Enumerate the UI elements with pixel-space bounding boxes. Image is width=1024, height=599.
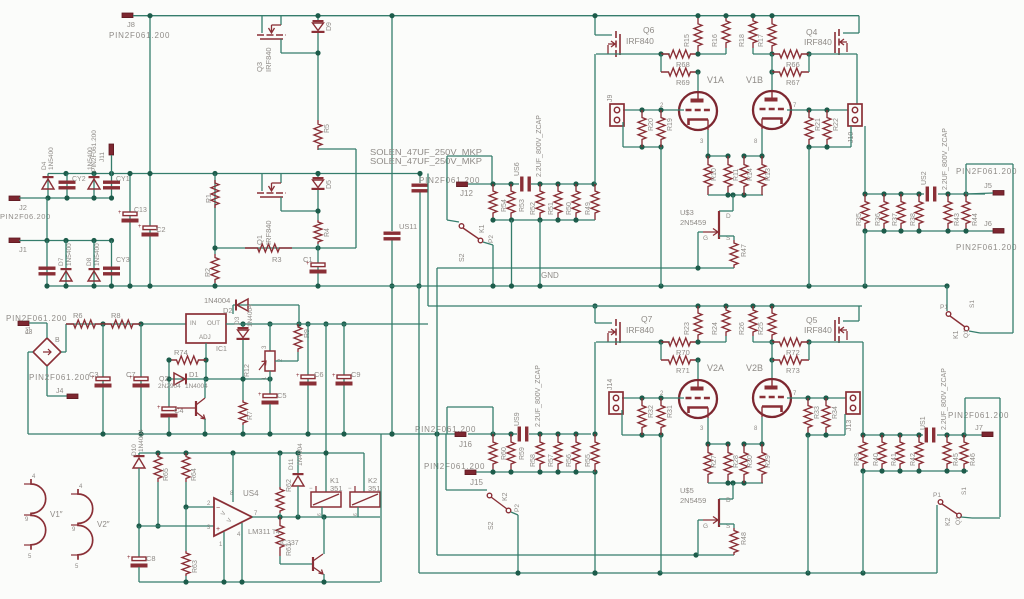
transistor Q3 IRF840 [261, 16, 263, 33]
svg-text:R74: R74 [174, 348, 188, 357]
svg-text:R40: R40 [873, 453, 880, 466]
svg-text:IRF840: IRF840 [804, 37, 832, 47]
switch K2 right [936, 505, 938, 573]
wire V2B plate [771, 360, 773, 380]
svg-text:R29: R29 [765, 455, 772, 468]
wire cathode rail y483 [708, 482, 763, 484]
svg-text:R57: R57 [548, 454, 555, 467]
svg-text:351: 351 [368, 484, 381, 493]
svg-text:G: G [703, 523, 708, 530]
svg-text:R19: R19 [667, 118, 674, 131]
svg-text:US2: US2 [921, 171, 928, 185]
transistor Q6 IRF840 [595, 34, 612, 36]
wire minus input [186, 506, 214, 508]
wire PSU rail y434 [28, 433, 455, 435]
resistor R37 [897, 194, 905, 231]
connector J2 [9, 196, 20, 201]
JFET U$3 2N5459 [732, 195, 734, 211]
svg-text:R63: R63 [192, 560, 199, 573]
svg-text:V1B: V1B [746, 75, 763, 85]
svg-text:6: 6 [353, 513, 359, 516]
svg-text:CY3: CY3 [116, 257, 130, 264]
connector J10 [848, 104, 862, 126]
diode D4 [47, 174, 49, 199]
wire B1 left down [28, 351, 33, 353]
resistor R42 [915, 435, 923, 471]
switch K2 lever [491, 497, 507, 509]
svg-text:P1: P1 [933, 492, 941, 499]
svg-text:K2: K2 [502, 492, 509, 501]
resistor R4 [314, 220, 322, 244]
svg-text:R31: R31 [667, 405, 674, 418]
connector J1 [9, 238, 20, 243]
diode D10 [138, 453, 140, 456]
wire relay supply K1 [325, 324, 327, 492]
connector J12 [457, 182, 468, 187]
resistor R66 [772, 50, 809, 58]
wire K2 coil bottom [357, 507, 359, 517]
resistor R6 [66, 320, 103, 328]
resistor R45 [943, 435, 951, 471]
wire x437 upper [436, 268, 438, 306]
resistor R17 [768, 16, 776, 54]
capacitor US1 [925, 428, 928, 443]
tube V1A [679, 92, 717, 130]
resistor R9 [294, 324, 302, 352]
svg-text:+: + [296, 373, 300, 379]
svg-text:1N5400: 1N5400 [94, 243, 101, 266]
switch K1 right [946, 286, 948, 311]
resistor R15 [694, 16, 702, 54]
svg-text:R38: R38 [910, 213, 917, 226]
svg-text:D: D [726, 213, 731, 220]
capacitor CY2 [66, 174, 68, 199]
resistor R11 [724, 156, 732, 195]
wire K2 drop [511, 512, 518, 515]
svg-text:R3: R3 [272, 255, 282, 264]
svg-text:S1: S1 [961, 487, 968, 495]
wire J9 down [622, 122, 624, 147]
wire Q5 gate [809, 341, 838, 343]
wire J12 box [447, 155, 492, 157]
diode D8 [93, 241, 95, 287]
resistor R52 [536, 184, 544, 220]
svg-text:R24: R24 [712, 322, 719, 335]
svg-text:D2: D2 [223, 306, 233, 315]
svg-text:D9: D9 [326, 22, 333, 31]
resistor R43 [944, 194, 952, 231]
svg-text:+: + [127, 555, 131, 561]
svg-text:J1: J1 [19, 245, 27, 254]
resistor R56 [572, 434, 580, 472]
svg-text:C6: C6 [314, 370, 324, 379]
heater V2 [78, 489, 93, 560]
wire V2A cathode [707, 418, 709, 444]
svg-text:R42: R42 [910, 453, 917, 466]
diode D11 [297, 453, 299, 474]
svg-text:J5: J5 [984, 181, 992, 190]
resistor R51 [554, 184, 562, 220]
wire R74 left [168, 360, 170, 407]
wire J16 bypass box [447, 406, 493, 408]
svg-text:J2: J2 [19, 203, 27, 212]
wire R26 link [753, 341, 772, 343]
svg-text:PIN2F061.200: PIN2F061.200 [956, 243, 1017, 252]
resistor R73 [771, 342, 773, 360]
wire B1 bottom to J4 [46, 366, 48, 396]
resistor R72 [772, 338, 809, 346]
wire V2B grid [787, 397, 846, 399]
wire U$5 source [719, 523, 734, 525]
svg-text:P1: P1 [940, 304, 948, 311]
JFET U$5 2N5459 [732, 483, 734, 499]
diode D3 [242, 324, 244, 327]
svg-text:C5: C5 [277, 391, 287, 400]
resistor R23 [694, 306, 702, 342]
resistor R14 [740, 156, 748, 195]
svg-text:PIN2F061.200: PIN2F061.200 [415, 425, 476, 434]
svg-text:C1: C1 [303, 255, 313, 264]
svg-text:R43: R43 [954, 213, 961, 226]
svg-text:−: − [348, 486, 352, 492]
svg-text:J11: J11 [99, 152, 106, 162]
svg-text:Q3: Q3 [255, 62, 264, 72]
wire Q5 out rail y435 [863, 434, 923, 436]
svg-text:PIN2F061.200: PIN2F061.200 [109, 31, 170, 40]
svg-text:1N4004: 1N4004 [138, 429, 145, 452]
svg-text:IC1: IC1 [216, 346, 227, 353]
svg-text:R25: R25 [758, 322, 765, 335]
wire Q6 source drop x595 [594, 54, 596, 184]
svg-text:R56: R56 [566, 454, 573, 467]
svg-text:K2: K2 [945, 517, 952, 526]
wire bank bottom y472 [465, 471, 595, 473]
resistor R20 [638, 110, 646, 147]
resistor R16 [722, 16, 730, 48]
svg-text:R41: R41 [891, 453, 898, 466]
svg-text:Q7: Q7 [641, 314, 653, 324]
svg-text:R48: R48 [741, 532, 748, 545]
svg-text:R52: R52 [530, 202, 537, 215]
svg-text:D10: D10 [131, 444, 138, 456]
svg-text:IRF840: IRF840 [626, 36, 654, 46]
svg-text:J8: J8 [127, 20, 135, 29]
resistor R54 [489, 184, 497, 220]
transistor Q337 [312, 557, 314, 571]
svg-text:R27: R27 [711, 455, 718, 468]
capacitor C3 [102, 324, 104, 434]
svg-text:P2: P2 [488, 235, 495, 243]
svg-text:6: 6 [317, 513, 323, 516]
svg-text:+: + [258, 392, 262, 398]
resistor R74 [169, 356, 206, 364]
svg-text:J9: J9 [607, 95, 614, 103]
wire bank drop x540 [539, 220, 541, 286]
wire ADJ [205, 343, 207, 379]
wire bottom rail y231 [865, 230, 993, 232]
svg-text:R23: R23 [684, 322, 691, 335]
wire R33 rail y435 [808, 434, 845, 436]
wire rail2 feed x428 [427, 174, 429, 307]
resistor R28 [724, 444, 732, 483]
svg-text:U$5: U$5 [680, 486, 694, 495]
svg-text:R71: R71 [676, 366, 690, 375]
resistor R70 [661, 338, 698, 346]
resistor R69 [660, 54, 662, 72]
relay K1 coil [311, 492, 341, 507]
diode D2 [232, 305, 234, 314]
svg-text:R6: R6 [73, 311, 83, 320]
resistor R32 [638, 398, 646, 435]
capacitor CY1 [111, 174, 113, 199]
resistor R62 [279, 453, 281, 487]
svg-text:1N5400: 1N5400 [66, 243, 73, 266]
wire R2-R3 y248 [215, 247, 356, 249]
wire pot wiper [275, 360, 298, 362]
svg-text:B: B [55, 337, 60, 344]
svg-text:351: 351 [330, 484, 343, 493]
resistor R2 [211, 254, 219, 283]
resistor R21 [805, 110, 813, 147]
svg-text:2N5459: 2N5459 [680, 496, 706, 505]
connector J5 [993, 191, 1004, 196]
svg-text:R30: R30 [747, 455, 754, 468]
resistor R18 [749, 16, 757, 48]
svg-text:R8: R8 [111, 311, 121, 320]
wire lower bank drop x595 [594, 472, 596, 573]
wire bank bottom y220 [493, 219, 595, 221]
resistor R24 [722, 306, 730, 336]
bridge rectifier B1 [33, 338, 61, 366]
wire Q337 emitter [323, 574, 325, 582]
connector J4 [67, 394, 78, 399]
switch K2 contact [487, 493, 492, 498]
wire Q6 drain y54 [596, 53, 670, 55]
wire y268 [437, 267, 734, 269]
resistor R27 [704, 444, 712, 483]
resistor R1 [214, 174, 216, 255]
svg-text:S2: S2 [459, 253, 466, 262]
svg-text:US11: US11 [399, 222, 417, 231]
svg-text:G: G [703, 235, 708, 242]
resistor R22 [823, 110, 831, 147]
capacitor C5 [269, 379, 271, 394]
wire J10 down [864, 126, 866, 194]
heater V1 [31, 479, 46, 550]
svg-text:C9: C9 [351, 370, 361, 379]
resistor R30 [740, 444, 748, 483]
svg-text:R73: R73 [786, 366, 800, 375]
svg-text:D11: D11 [288, 458, 295, 470]
wire Q2 collector [204, 379, 206, 398]
svg-text:Q1: Q1 [963, 329, 970, 338]
resistor R46 [960, 435, 968, 471]
wire V2A grid [622, 397, 684, 399]
svg-text:R46: R46 [970, 453, 977, 466]
svg-text:D5: D5 [326, 180, 333, 189]
svg-text:C8: C8 [146, 554, 156, 563]
capacitor C2 [143, 226, 157, 230]
connector J3 [18, 321, 29, 326]
svg-text:R47: R47 [741, 244, 748, 257]
wire J3 to B1 [29, 322, 47, 324]
svg-text:R35: R35 [856, 213, 863, 226]
tube V1B [753, 91, 791, 129]
svg-text:R16: R16 [712, 34, 719, 47]
svg-text:V1A: V1A [707, 75, 724, 85]
resistor R47 [730, 240, 738, 268]
svg-text:R5: R5 [324, 124, 331, 133]
svg-text:R17: R17 [758, 34, 765, 47]
svg-text:R66: R66 [786, 60, 800, 69]
svg-text:R1: R1 [206, 194, 213, 203]
svg-text:2N2904: 2N2904 [158, 383, 181, 390]
svg-text:1N4004: 1N4004 [297, 443, 304, 466]
resistor R5 [314, 120, 322, 150]
svg-text:+: + [332, 373, 336, 379]
svg-text:+: + [157, 405, 161, 411]
wire plus input [139, 525, 214, 527]
capacitor C9 [343, 324, 345, 434]
resistor R34 [822, 398, 830, 435]
svg-text:R4: R4 [324, 228, 331, 237]
switch K1 contact P [459, 224, 464, 229]
resistor R8 [103, 320, 141, 328]
wire main line x150 [149, 16, 151, 286]
svg-text:OUT: OUT [207, 320, 220, 327]
wire K1 drop [483, 242, 493, 245]
svg-text:C2: C2 [156, 225, 166, 234]
svg-text:1N5400: 1N5400 [48, 147, 55, 170]
svg-text:R67: R67 [786, 78, 800, 87]
connector J14 [609, 392, 623, 414]
diode D7 [65, 241, 67, 287]
svg-text:U$3: U$3 [680, 208, 694, 217]
capacitor C12 [129, 174, 131, 287]
svg-text:R26: R26 [739, 322, 746, 335]
svg-text:C13: C13 [134, 207, 147, 214]
svg-text:PIN2F061.200: PIN2F061.200 [6, 314, 67, 323]
capacitor CY3 [111, 241, 113, 287]
svg-text:PIN2F061.200: PIN2F061.200 [91, 130, 98, 172]
wire rail2 feed corner [428, 305, 429, 307]
wire relay right drop [380, 434, 382, 582]
svg-text:S2: S2 [488, 521, 495, 530]
wire B1 right up [61, 351, 66, 353]
wire Q1 source [280, 197, 282, 211]
svg-text:CY1: CY1 [116, 176, 130, 183]
svg-text:R68: R68 [676, 60, 690, 69]
svg-text:US4: US4 [243, 489, 259, 498]
wire Q4 source [838, 53, 857, 55]
svg-text:R64: R64 [191, 468, 198, 481]
svg-text:IRF840: IRF840 [804, 325, 832, 335]
svg-text:R44: R44 [972, 213, 979, 226]
svg-text:Q5: Q5 [806, 315, 818, 325]
wire K1 right out [969, 331, 980, 333]
resistor R65 [154, 453, 162, 482]
wire lower source y555 [437, 554, 734, 556]
wire opamp pin1 [223, 532, 225, 582]
wire R39 drop [862, 471, 864, 573]
wire lower rail y573 [419, 572, 937, 574]
resistor R3 [245, 244, 292, 252]
wire J5 [966, 193, 993, 194]
svg-text:US6: US6 [514, 162, 521, 176]
wire R21 gnd drop [808, 147, 810, 286]
svg-text:R39: R39 [854, 453, 861, 466]
resistor R26 [749, 306, 757, 336]
wire K2 feed [445, 434, 447, 490]
connector J7 [982, 432, 993, 437]
wire V1A plate [697, 72, 699, 94]
diode D5 [313, 177, 324, 179]
connector J13 [846, 392, 860, 414]
svg-text:R69: R69 [676, 78, 690, 87]
svg-text:C1: C1 [26, 326, 32, 334]
svg-text:J13: J13 [846, 420, 853, 431]
capacitor C10 [46, 241, 48, 287]
wire bottom rail y471 [863, 470, 968, 472]
relay K2 coil [350, 492, 380, 507]
wire R18 link [753, 53, 772, 55]
resistor R57 [554, 434, 562, 472]
wire J14 down [621, 410, 623, 435]
connector J11 [109, 144, 114, 155]
svg-text:+: + [216, 526, 220, 533]
svg-text:J6: J6 [984, 219, 992, 228]
svg-text:2.2UF_800V_ZCAP: 2.2UF_800V_ZCAP [941, 368, 948, 430]
svg-text:−: − [216, 505, 220, 512]
svg-text:D8: D8 [86, 257, 93, 266]
svg-text:V2A: V2A [707, 363, 724, 373]
IC1 regulator [186, 314, 226, 343]
wire opamp pin4 [241, 523, 243, 582]
resistor R49 [591, 184, 599, 220]
resistor R7 [239, 400, 247, 425]
resistor R55 [591, 434, 599, 472]
wire VCC y324 [66, 323, 186, 325]
capacitor C8 [138, 526, 140, 557]
svg-text:J15: J15 [470, 478, 483, 487]
resistor R29 [758, 444, 766, 483]
wire bottom rail y582 [139, 581, 380, 583]
svg-text:R21: R21 [815, 118, 822, 131]
svg-text:R7: R7 [247, 411, 254, 420]
svg-text:Q6: Q6 [643, 25, 655, 35]
connector J6 [993, 229, 1004, 234]
wire U$3 gate loop [698, 231, 703, 233]
resistor R31 [657, 398, 665, 435]
svg-text:R51: R51 [548, 202, 555, 215]
svg-text:D1: D1 [189, 370, 199, 379]
wire cathode rail y195 [708, 194, 763, 196]
svg-text:S1: S1 [969, 300, 976, 308]
svg-text:R49: R49 [585, 202, 592, 215]
svg-text:Q1: Q1 [255, 235, 264, 245]
wire top rail y16 [133, 15, 859, 17]
svg-text:R55: R55 [585, 454, 592, 467]
svg-text:J4: J4 [56, 388, 64, 395]
capacitor US2 [926, 187, 929, 202]
svg-text:C3: C3 [89, 370, 99, 379]
svg-text:R53: R53 [519, 199, 526, 212]
transistor Q7 IRF840 [594, 306, 596, 323]
wire V1B plate [771, 72, 773, 92]
wire Q3 source [280, 39, 282, 53]
diode D1 [174, 373, 185, 385]
svg-text:R15: R15 [684, 34, 691, 47]
